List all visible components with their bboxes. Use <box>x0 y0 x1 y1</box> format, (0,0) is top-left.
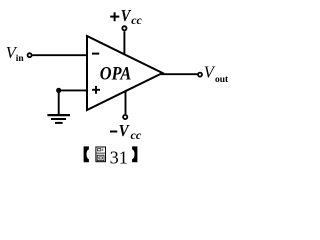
svg-text:V: V <box>121 7 132 25</box>
wire to ground <box>58 90 60 114</box>
svg-text:cc: cc <box>131 13 142 27</box>
terminal +Vcc <box>122 26 126 30</box>
wire +Vcc supply <box>123 31 125 55</box>
junction dot <box>56 88 61 93</box>
wire output <box>161 73 197 75</box>
caption right bracket <box>132 146 137 162</box>
label +Vcc <box>110 7 142 27</box>
wire input to inverting pin <box>32 54 87 56</box>
terminal -Vcc <box>123 115 127 119</box>
ground <box>47 115 70 123</box>
svg-text:OPA: OPA <box>100 63 131 84</box>
svg-text:out: out <box>215 75 229 85</box>
label Vin <box>6 43 25 64</box>
svg-text:V: V <box>119 122 130 140</box>
label -Vcc <box>110 122 142 142</box>
plus sign non-inverting input <box>92 86 100 94</box>
svg-text:31: 31 <box>110 147 128 167</box>
terminal output node <box>198 73 202 77</box>
op-amp U1 <box>87 36 163 110</box>
caption left bracket <box>84 146 89 162</box>
caption character tu (figure) <box>96 147 106 162</box>
label Vout <box>204 63 229 86</box>
minus sign inverting input <box>92 53 99 55</box>
wire -Vcc supply <box>125 91 127 114</box>
svg-text:in: in <box>16 54 25 64</box>
terminal input node <box>28 53 32 57</box>
svg-text:cc: cc <box>131 128 142 142</box>
svg-text:V: V <box>204 63 216 82</box>
wire non-inverting to ground <box>59 89 87 91</box>
